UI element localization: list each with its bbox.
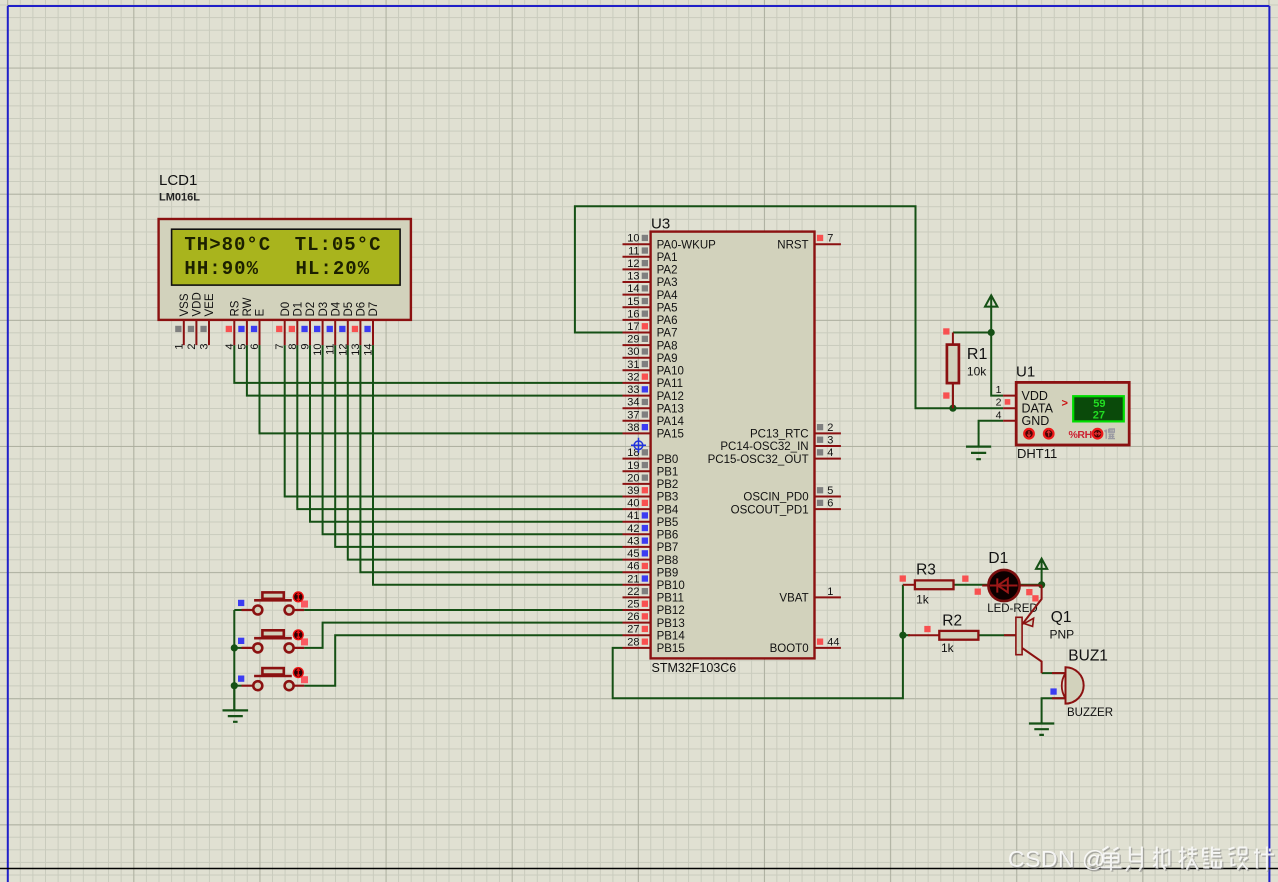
svg-text:26: 26 [627,611,639,623]
svg-text:3: 3 [827,435,833,447]
svg-text:TH>80°C: TH>80°C [184,234,270,256]
svg-text:37: 37 [627,409,639,421]
svg-text:PB1: PB1 [657,467,679,479]
svg-text:11: 11 [628,245,639,257]
svg-text:PB5: PB5 [657,517,679,529]
svg-text:7: 7 [827,233,833,245]
svg-text:VEE: VEE [204,293,216,316]
svg-text:R1: R1 [967,346,988,363]
svg-text:U3: U3 [651,216,670,233]
svg-text:5: 5 [236,344,248,350]
svg-text:PA1: PA1 [657,252,678,264]
svg-text:D3: D3 [318,302,330,317]
svg-text:PNP: PNP [1050,628,1075,642]
svg-text:14: 14 [363,344,375,356]
svg-text:1: 1 [827,586,833,598]
svg-text:PA8: PA8 [657,340,678,352]
svg-text:8: 8 [287,344,299,350]
svg-text:PA11: PA11 [657,378,683,390]
svg-text:PB4: PB4 [657,504,679,516]
svg-text:PA6: PA6 [657,315,678,327]
svg-text:27: 27 [1093,409,1105,421]
svg-text:59: 59 [1093,398,1105,410]
svg-text:STM32F103C6: STM32F103C6 [652,661,737,675]
svg-text:PA14: PA14 [657,416,685,428]
svg-text:%RH: %RH [1069,429,1092,441]
svg-text:6: 6 [249,344,261,350]
svg-text:DHT11: DHT11 [1017,446,1057,461]
svg-text:4: 4 [224,344,236,350]
svg-text:LM016L: LM016L [159,192,200,204]
svg-text:PB11: PB11 [657,593,684,605]
svg-text:PB3: PB3 [657,492,679,504]
svg-text:PA2: PA2 [657,265,678,277]
svg-text:PC13_RTC: PC13_RTC [750,429,809,441]
svg-text:PA3: PA3 [657,277,678,289]
svg-text:19: 19 [627,460,639,472]
svg-text:GND: GND [1022,414,1050,428]
svg-text:D4: D4 [330,301,342,316]
svg-text:PB13: PB13 [657,618,685,630]
svg-text:RS: RS [230,300,242,316]
svg-text:PB9: PB9 [657,567,679,579]
svg-text:17: 17 [627,321,639,333]
svg-text:20: 20 [627,472,639,484]
svg-text:BUZ1: BUZ1 [1068,648,1108,665]
svg-text:1k: 1k [941,641,955,655]
svg-text:PB7: PB7 [657,542,679,554]
svg-text:PB10: PB10 [657,580,685,592]
svg-text:45: 45 [627,548,639,560]
svg-text:PB8: PB8 [657,555,679,567]
svg-text:41: 41 [627,510,639,522]
svg-text:39: 39 [627,485,639,497]
svg-text:HL:20%: HL:20% [296,258,370,280]
svg-text:22: 22 [627,586,639,598]
svg-text:33: 33 [627,384,639,396]
svg-text:1: 1 [173,344,185,350]
svg-text:9: 9 [300,344,312,350]
svg-text:5: 5 [827,485,833,497]
svg-text:HH:90%: HH:90% [184,258,258,280]
svg-text:43: 43 [627,535,639,547]
svg-text:TL:05°C: TL:05°C [295,234,381,256]
svg-text:29: 29 [627,334,639,346]
svg-text:46: 46 [627,561,639,573]
svg-text:PB0: PB0 [657,454,679,466]
svg-text:11: 11 [325,344,337,355]
svg-text:BUZZER: BUZZER [1067,707,1113,719]
svg-text:14: 14 [627,283,639,295]
svg-text:RW: RW [242,297,254,316]
svg-text:40: 40 [627,498,639,510]
svg-text:31: 31 [627,359,639,371]
svg-text:D2: D2 [305,302,317,317]
svg-text:3: 3 [199,344,211,350]
svg-text:6: 6 [827,498,833,510]
svg-text:10: 10 [312,344,324,356]
svg-text:28: 28 [627,636,639,648]
svg-text:PA5: PA5 [657,303,678,315]
svg-text:2: 2 [827,422,833,434]
svg-text:CSDN @: CSDN @ [1008,846,1106,872]
svg-text:VDD: VDD [192,292,204,316]
svg-text:42: 42 [627,523,639,535]
svg-text:PB12: PB12 [657,605,685,617]
svg-text:12: 12 [627,258,639,270]
svg-text:4: 4 [996,409,1002,421]
svg-text:PB15: PB15 [657,643,685,655]
svg-text:32: 32 [627,371,639,383]
svg-text:PA13: PA13 [657,403,684,415]
svg-text:PA12: PA12 [657,391,684,403]
svg-text:U1: U1 [1016,364,1035,381]
svg-text:PB2: PB2 [657,479,679,491]
svg-text:OSCIN_PD0: OSCIN_PD0 [743,492,808,504]
svg-text:38: 38 [627,422,639,434]
svg-text:VSS: VSS [179,293,191,316]
svg-text:PB6: PB6 [657,530,679,542]
svg-text:13: 13 [350,344,362,356]
svg-text:NRST: NRST [777,239,808,251]
svg-text:2: 2 [996,397,1002,409]
svg-text:PB14: PB14 [657,630,686,642]
svg-text:D1: D1 [293,302,305,317]
svg-text:44: 44 [827,636,839,648]
svg-text:OSCOUT_PD1: OSCOUT_PD1 [731,504,809,516]
svg-text:LCD1: LCD1 [159,172,197,189]
svg-text:R3: R3 [916,562,936,579]
svg-text:27: 27 [627,624,639,636]
svg-text:4: 4 [827,447,833,459]
svg-text:PA15: PA15 [657,429,684,441]
svg-text:PC15-OSC32_OUT: PC15-OSC32_OUT [708,454,809,466]
svg-text:R2: R2 [942,613,962,630]
svg-text:BOOT0: BOOT0 [770,643,809,655]
svg-text:PC14-OSC32_IN: PC14-OSC32_IN [720,441,808,453]
svg-text:1: 1 [996,384,1002,396]
svg-text:10k: 10k [967,365,987,379]
svg-text:12: 12 [337,344,349,356]
svg-text:>: > [1062,398,1068,410]
svg-text:PA9: PA9 [657,353,678,365]
svg-text:PA10: PA10 [657,366,684,378]
svg-text:D7: D7 [368,302,380,317]
svg-text:7: 7 [274,344,286,350]
svg-text:VBAT: VBAT [779,593,808,605]
svg-text:34: 34 [627,397,639,409]
svg-text:13: 13 [627,271,639,283]
svg-text:Q1: Q1 [1051,609,1072,626]
svg-text:D1: D1 [988,550,1008,567]
svg-text:PA0-WKUP: PA0-WKUP [657,239,717,251]
svg-text:2: 2 [186,344,198,350]
svg-text:15: 15 [627,296,639,308]
svg-text:D6: D6 [356,302,368,317]
svg-text:30: 30 [627,346,639,358]
svg-text:25: 25 [627,599,639,611]
svg-text:D5: D5 [343,302,355,317]
svg-text:PA7: PA7 [657,328,678,340]
svg-text:D0: D0 [280,302,292,317]
svg-text:16: 16 [627,308,639,320]
svg-text:PA4: PA4 [657,290,678,302]
svg-text:1k: 1k [916,593,930,607]
svg-text:E: E [255,309,267,317]
svg-text:10: 10 [627,233,639,245]
svg-text:21: 21 [627,573,639,585]
